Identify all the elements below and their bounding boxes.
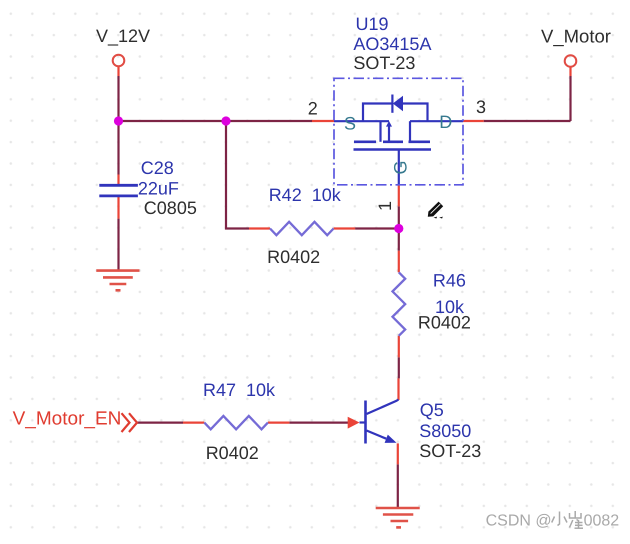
svg-text:2: 2 bbox=[308, 99, 318, 119]
svg-text:V_Motor: V_Motor bbox=[541, 26, 611, 47]
svg-text:CSDN @: CSDN @ bbox=[486, 512, 552, 529]
svg-text:10k: 10k bbox=[435, 297, 465, 317]
svg-text:R46: R46 bbox=[433, 271, 466, 291]
svg-text:22uF: 22uF bbox=[138, 179, 179, 199]
svg-text:C0805: C0805 bbox=[144, 198, 197, 218]
svg-text:R47 10k: R47 10k bbox=[203, 380, 276, 400]
svg-text:SOT-23: SOT-23 bbox=[353, 53, 415, 73]
svg-text:3: 3 bbox=[476, 97, 486, 117]
svg-text:D: D bbox=[439, 112, 452, 132]
svg-text:Q5: Q5 bbox=[420, 400, 444, 420]
svg-text:V_Motor_EN: V_Motor_EN bbox=[13, 409, 122, 430]
svg-text:S8050: S8050 bbox=[419, 421, 471, 441]
svg-text:SOT-23: SOT-23 bbox=[419, 441, 481, 461]
svg-text:S: S bbox=[344, 113, 356, 133]
svg-text:G: G bbox=[391, 160, 411, 174]
svg-text:V_12V: V_12V bbox=[96, 26, 150, 46]
svg-text:0082: 0082 bbox=[584, 512, 620, 529]
svg-text:U19: U19 bbox=[356, 14, 389, 34]
svg-text:C28: C28 bbox=[141, 158, 174, 178]
svg-text:1: 1 bbox=[375, 201, 395, 211]
svg-text:R42 10k: R42 10k bbox=[269, 185, 342, 205]
svg-text:R0402: R0402 bbox=[267, 247, 320, 267]
svg-text:R0402: R0402 bbox=[206, 443, 259, 463]
svg-text:AO3415A: AO3415A bbox=[353, 34, 431, 54]
